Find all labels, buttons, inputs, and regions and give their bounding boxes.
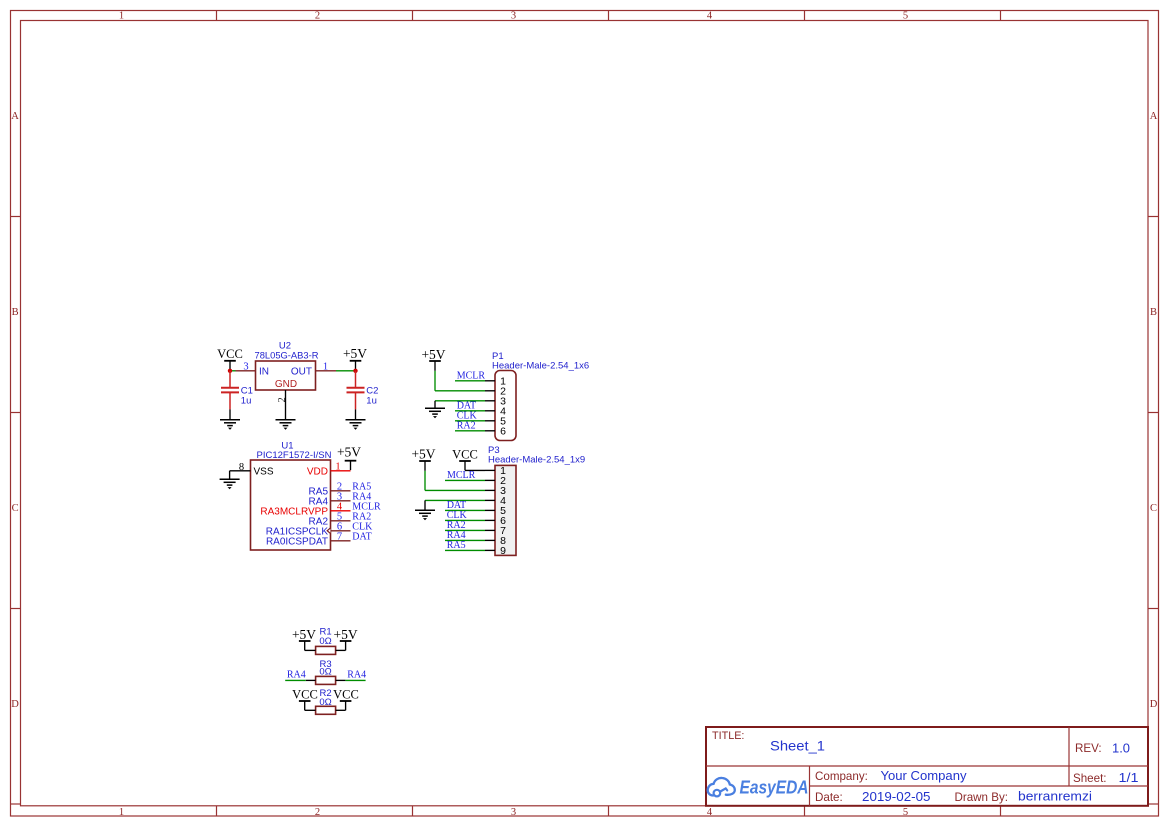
connector P1 Header-Male-2.54_1x6 — [492, 351, 589, 441]
svg-text:9: 9 — [500, 545, 506, 557]
svg-text:MCLR: MCLR — [447, 470, 476, 481]
svg-text:3: 3 — [243, 362, 248, 373]
svg-text:2: 2 — [315, 11, 320, 22]
ground under C2 — [346, 420, 366, 430]
junction at +5V / C2 — [353, 369, 357, 373]
wire stubs R3 — [306, 679, 346, 681]
ground under U2 pin 2 — [276, 420, 296, 430]
svg-text:0Ω: 0Ω — [319, 636, 331, 647]
svg-text:TITLE:: TITLE: — [712, 730, 744, 742]
net label RA4 (U1 pin 3) — [352, 491, 371, 502]
net label RA5 (P3) — [447, 540, 466, 551]
ground under C1 — [220, 420, 240, 430]
wire VCC junction to U2 pin 3 — [230, 370, 236, 372]
wire C2 to ground — [355, 409, 357, 419]
wire net RA2 to P1 — [455, 430, 485, 432]
svg-text:A: A — [11, 111, 19, 122]
net label MCLR (P3) — [447, 470, 476, 481]
svg-text:IN: IN — [259, 366, 269, 377]
svg-text:RA4: RA4 — [347, 670, 366, 681]
wire net DAT to P1 — [455, 410, 485, 412]
net label RA4 (R3 left) — [287, 670, 306, 681]
wire U1 pin8 down to ground — [229, 471, 231, 479]
ground at U1 VSS — [220, 479, 240, 489]
power flag +5V (U1) — [337, 444, 361, 460]
P3 pin 3 stub — [485, 485, 506, 497]
net label RA2 (P1) — [457, 421, 476, 432]
svg-text:1: 1 — [335, 461, 340, 472]
svg-text:1u: 1u — [366, 395, 377, 406]
svg-text:RA5: RA5 — [447, 540, 466, 551]
svg-text:EasyEDA: EasyEDA — [740, 778, 809, 798]
svg-text:Header-Male-2.54_1x9: Header-Male-2.54_1x9 — [488, 454, 585, 465]
svg-text:VCC: VCC — [333, 687, 359, 701]
U1 pin 4 — [331, 502, 351, 513]
capacitor C1 1u — [221, 371, 253, 410]
wire net RA4 to P3 — [445, 539, 485, 541]
power flag VCC (R2 left) — [292, 687, 318, 710]
wire net RA2 to P3 — [445, 529, 485, 531]
P3 pin 2 stub — [485, 475, 506, 487]
wire net DAT to P3 — [445, 509, 485, 511]
svg-text:5: 5 — [903, 807, 908, 818]
power flag VCC (U2 input) — [217, 347, 243, 371]
P1 pin 4 stub — [485, 405, 506, 417]
svg-text:Company:: Company: — [815, 770, 868, 783]
svg-text:VCC: VCC — [452, 447, 478, 461]
svg-text:+5V: +5V — [421, 347, 445, 362]
wire net MCLR to P1 pin1 — [455, 380, 485, 382]
resistor R2 0ohm — [316, 688, 336, 715]
connector P3 Header-Male-2.54_1x9 — [488, 445, 585, 555]
wire net RA4 right of R3 — [345, 679, 365, 681]
svg-text:B: B — [1150, 307, 1157, 318]
net label DAT (P3) — [447, 500, 466, 511]
net label CLK (P1) — [457, 411, 478, 422]
svg-text:A: A — [1150, 111, 1158, 122]
svg-text:1/1: 1/1 — [1119, 771, 1139, 785]
U1 pin 1 (VDD) — [331, 461, 351, 472]
title block — [706, 727, 1148, 806]
P1 pin 2 stub — [485, 385, 506, 397]
svg-text:3: 3 — [511, 11, 516, 22]
P1 pin 5 stub — [485, 415, 506, 427]
U1 pin 8 (VSS) — [230, 462, 251, 473]
svg-text:Header-Male-2.54_1x6: Header-Male-2.54_1x6 — [492, 360, 589, 371]
P1 pin 1 stub — [485, 375, 506, 387]
svg-text:Your Company: Your Company — [881, 768, 968, 783]
U2 pin 1 (OUT) — [316, 362, 337, 373]
wire +5V to P1 pin2 — [435, 371, 485, 391]
wire net CLK to P1 — [455, 420, 485, 422]
svg-text:1u: 1u — [241, 395, 252, 406]
net label DAT (U1 pin 7) — [352, 531, 371, 542]
net label MCLR (U1 pin 4) — [352, 501, 381, 512]
svg-text:7: 7 — [337, 532, 342, 543]
title block texts — [712, 730, 1139, 804]
svg-text:+5V: +5V — [337, 444, 361, 459]
svg-text:4: 4 — [707, 807, 713, 818]
P3 pin 8 stub — [485, 535, 506, 547]
svg-text:RA0ICSPDAT: RA0ICSPDAT — [266, 536, 328, 547]
P3 pin 5 stub — [485, 505, 506, 517]
wire VCC to P3 pin1 — [465, 461, 485, 470]
svg-text:D: D — [11, 699, 19, 710]
svg-text:2: 2 — [277, 397, 288, 402]
net label CLK (U1 pin 6) — [352, 521, 373, 532]
svg-text:B: B — [12, 307, 19, 318]
net label RA4 (P3) — [447, 530, 466, 541]
power flag +5V (P1) — [421, 347, 445, 371]
svg-text:+5V: +5V — [292, 627, 316, 642]
svg-text:8: 8 — [239, 462, 244, 473]
P1 pin 3 stub — [485, 395, 506, 407]
P1 pin 6 stub — [485, 425, 506, 437]
svg-text:3: 3 — [511, 807, 516, 818]
net label MCLR (P1) — [457, 371, 486, 382]
svg-text:REV:: REV: — [1075, 742, 1102, 755]
net label RA5 (U1 pin 2) — [352, 481, 371, 492]
power flag VCC (R2 right) — [333, 687, 359, 710]
capacitor C2 1u — [347, 371, 379, 410]
svg-text:0Ω: 0Ω — [319, 667, 331, 678]
U1 pin 3 — [331, 492, 351, 503]
svg-text:berranremzi: berranremzi — [1018, 790, 1092, 804]
wire net RA5 to P3 — [445, 549, 485, 551]
ground at P1 pin3 — [425, 408, 445, 418]
power flag +5V (R1 right) — [334, 627, 358, 651]
svg-text:+5V: +5V — [411, 446, 435, 461]
svg-text:D: D — [1150, 699, 1158, 710]
net label RA2 (U1 pin 5) — [352, 511, 371, 522]
svg-text:0Ω: 0Ω — [319, 697, 331, 708]
svg-text:RA2: RA2 — [457, 421, 476, 432]
svg-text:+5V: +5V — [343, 346, 367, 361]
svg-text:Drawn By:: Drawn By: — [955, 791, 1008, 804]
U1 pin 5 — [331, 512, 351, 523]
EasyEDA logo — [708, 778, 735, 796]
wire U1 VDD to +5V — [350, 461, 352, 470]
svg-text:2: 2 — [315, 807, 320, 818]
wire C1 to ground — [229, 409, 231, 419]
svg-text:GND: GND — [275, 379, 297, 390]
resistor R3 0ohm — [316, 659, 336, 685]
svg-text:2019-02-05: 2019-02-05 — [862, 790, 931, 804]
P3 pin 1 stub — [485, 465, 506, 477]
svg-text:1: 1 — [323, 362, 328, 373]
svg-text:VSS: VSS — [254, 466, 274, 477]
net label RA2 (P3) — [447, 520, 466, 531]
svg-text:VCC: VCC — [217, 347, 243, 361]
P3 pin 9 stub — [485, 545, 506, 557]
svg-text:MCLR: MCLR — [457, 371, 486, 382]
svg-text:RA4: RA4 — [287, 670, 306, 681]
svg-text:+5V: +5V — [334, 627, 358, 642]
svg-text:5: 5 — [903, 11, 908, 22]
svg-text:PIC12F1572-I/SN: PIC12F1572-I/SN — [257, 450, 332, 461]
wire net MCLR to P3 pin2 — [445, 479, 485, 481]
IC U2 78L05G-AB3-R — [255, 341, 319, 391]
svg-text:C: C — [12, 503, 19, 514]
U2 pin 3 (IN) — [236, 362, 256, 373]
U2 pin 2 (GND) — [277, 390, 288, 419]
svg-text:1: 1 — [119, 807, 124, 818]
wire net RA4 left of R3 — [285, 679, 306, 681]
svg-text:VDD: VDD — [307, 466, 328, 477]
P3 pin 6 stub — [485, 515, 506, 527]
junction at VCC / C1 — [228, 369, 232, 373]
net label CLK (P3) — [447, 510, 468, 521]
svg-text:4: 4 — [707, 11, 713, 22]
wire U2 pin1 to +5V junction — [336, 370, 356, 372]
svg-text:1.0: 1.0 — [1112, 742, 1130, 756]
net label RA4 (R3 right) — [347, 670, 366, 681]
IC U1 PIC12F1572-I/SN — [251, 441, 332, 551]
power flag +5V (R1 left) — [292, 627, 316, 651]
svg-text:Sheet:: Sheet: — [1073, 772, 1107, 785]
wire +5V to P3 pin3 — [425, 471, 485, 491]
svg-text:OUT: OUT — [291, 366, 312, 377]
U1 pin 6 — [331, 522, 351, 533]
U1 pin 2 — [331, 482, 351, 493]
svg-text:Date:: Date: — [815, 791, 843, 804]
U1 pin 7 — [331, 532, 351, 543]
power flag +5V (P3) — [411, 446, 435, 470]
power flag +5V (U2 output) — [343, 346, 367, 371]
ground at P3 pin4 — [415, 510, 435, 520]
svg-text:78L05G-AB3-R: 78L05G-AB3-R — [255, 350, 319, 361]
net label DAT (P1) — [457, 401, 476, 412]
P3 pin 7 stub — [485, 525, 506, 537]
wire net CLK to P3 — [445, 519, 485, 521]
svg-text:DAT: DAT — [352, 531, 371, 542]
wire P1 pin3 to ground — [435, 401, 485, 408]
resistor R1 0ohm — [316, 626, 336, 654]
svg-text:6: 6 — [500, 425, 506, 437]
svg-text:VCC: VCC — [292, 687, 318, 701]
svg-text:1: 1 — [119, 11, 124, 22]
svg-text:Sheet_1: Sheet_1 — [770, 739, 825, 754]
P3 pin 4 stub — [485, 495, 506, 507]
svg-text:C: C — [1150, 503, 1157, 514]
power flag VCC (P3) — [452, 447, 478, 461]
wire P3 pin4 to ground — [425, 500, 485, 510]
